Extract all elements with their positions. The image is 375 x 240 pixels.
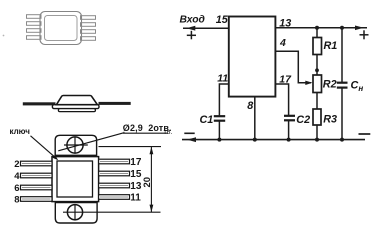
capacitor C2 bbox=[284, 116, 295, 121]
mounting hole bottom cross bbox=[74, 204, 76, 221]
svg-text:17: 17 bbox=[130, 157, 142, 168]
junction dot R1-R2 bbox=[315, 68, 319, 72]
output rail wire bbox=[275, 27, 367, 29]
dimension extension top bbox=[99, 146, 162, 148]
mounting hole top bbox=[67, 137, 83, 153]
svg-text:8: 8 bbox=[247, 100, 253, 112]
junction Cn/rail bbox=[340, 26, 344, 30]
speck bbox=[3, 35, 5, 37]
svg-text:11: 11 bbox=[217, 73, 228, 85]
junction C2/rail bbox=[287, 138, 291, 142]
junction pin8/rail bbox=[253, 138, 257, 142]
rail arrow left bbox=[187, 137, 196, 142]
wire pin 4 to R2 wiper bbox=[275, 51, 311, 83]
wire Cn to rail bbox=[341, 88, 343, 140]
wire rail to Cn bbox=[341, 28, 343, 83]
input wire pin 15 bbox=[183, 27, 229, 29]
mounting hole top cross bbox=[64, 144, 88, 146]
junction Cn/rail bbox=[340, 138, 344, 142]
hole leader shelf bbox=[123, 132, 168, 134]
resistor R2 bbox=[313, 75, 322, 93]
capacitor C1 bbox=[214, 116, 225, 121]
wire pin 11 to C1 bbox=[219, 84, 228, 116]
resistor R1 bbox=[313, 38, 322, 55]
wire C2 to rail bbox=[288, 121, 290, 140]
svg-text:4: 4 bbox=[14, 171, 20, 182]
wire rail to R1 bbox=[316, 28, 318, 38]
common rail wire bbox=[182, 139, 365, 141]
side view bottom plate bbox=[58, 109, 95, 112]
svg-text:Вход: Вход bbox=[180, 14, 205, 25]
key leader bbox=[31, 136, 57, 159]
output arrow bbox=[355, 26, 364, 31]
bottom view body bbox=[52, 157, 99, 202]
side view right lead bbox=[99, 102, 131, 105]
pin 4 lead bbox=[21, 173, 53, 178]
svg-text:R1: R1 bbox=[324, 40, 338, 52]
svg-text:C2: C2 bbox=[296, 114, 310, 126]
minus left bbox=[184, 132, 194, 134]
svg-text:R2: R2 bbox=[323, 79, 337, 91]
pin 17 lead bbox=[99, 159, 130, 164]
input arrow bbox=[186, 26, 195, 31]
key leader arrowhead bbox=[53, 155, 59, 160]
resistor R3 bbox=[313, 109, 321, 125]
svg-text:6: 6 bbox=[14, 183, 19, 194]
wiper arrowhead bbox=[305, 81, 312, 85]
svg-text:20: 20 bbox=[142, 177, 153, 188]
dimension line 20 bbox=[150, 147, 152, 213]
svg-text:13: 13 bbox=[130, 181, 142, 192]
svg-text:15: 15 bbox=[130, 169, 142, 180]
package 3D top view body (faint) bbox=[40, 12, 82, 45]
svg-text:4: 4 bbox=[279, 37, 286, 49]
wire R1 to R2 bbox=[316, 55, 318, 76]
wire pin 17 to C2 bbox=[275, 84, 288, 115]
minus right bbox=[359, 133, 371, 135]
pin 8 lead bbox=[21, 197, 53, 202]
bottom view inner square bbox=[57, 161, 93, 197]
junction R1/rail bbox=[315, 26, 319, 30]
dimension arrow top bbox=[150, 147, 154, 155]
package 3D view right leads (faint) bbox=[81, 16, 96, 41]
junction R3/rail bbox=[315, 138, 319, 142]
pin 15 lead bbox=[99, 171, 130, 176]
svg-text:2: 2 bbox=[14, 159, 19, 170]
svg-text:15: 15 bbox=[216, 14, 229, 26]
capacitor Cn bbox=[337, 83, 348, 88]
dimension arrow bottom bbox=[150, 205, 154, 213]
wire R3 to rail bbox=[316, 125, 318, 140]
bottom hole centre line / dimension extension bbox=[63, 211, 161, 213]
bottom view bottom tab bbox=[55, 203, 97, 223]
side view flange bbox=[52, 105, 99, 109]
IC U1 bbox=[229, 17, 276, 97]
pin 11 lead bbox=[99, 195, 130, 200]
wire R2 to R3 bbox=[316, 93, 318, 110]
junction C1/rail bbox=[217, 138, 221, 142]
svg-text:ключ: ключ bbox=[10, 127, 31, 136]
svg-text:11: 11 bbox=[130, 193, 141, 204]
package 3D view left leads (faint) bbox=[27, 15, 42, 40]
plus right bbox=[360, 30, 369, 39]
svg-text:тв.: тв. bbox=[164, 129, 173, 136]
svg-text:R3: R3 bbox=[323, 114, 337, 126]
plus left bbox=[187, 31, 196, 40]
pin 13 lead bbox=[99, 183, 130, 188]
mounting hole bottom bbox=[67, 205, 82, 220]
svg-text:8: 8 bbox=[14, 194, 19, 205]
wire C1 to rail bbox=[218, 121, 220, 140]
pin 2 lead bbox=[21, 161, 53, 166]
side view body bbox=[56, 96, 97, 105]
bottom view top tab bbox=[55, 135, 96, 155]
side view left lead bbox=[23, 102, 56, 105]
hole leader line bbox=[58, 133, 124, 151]
wire pin 8 to rail bbox=[254, 97, 256, 140]
pin 6 lead bbox=[21, 185, 53, 190]
svg-text:C1: C1 bbox=[200, 114, 214, 126]
